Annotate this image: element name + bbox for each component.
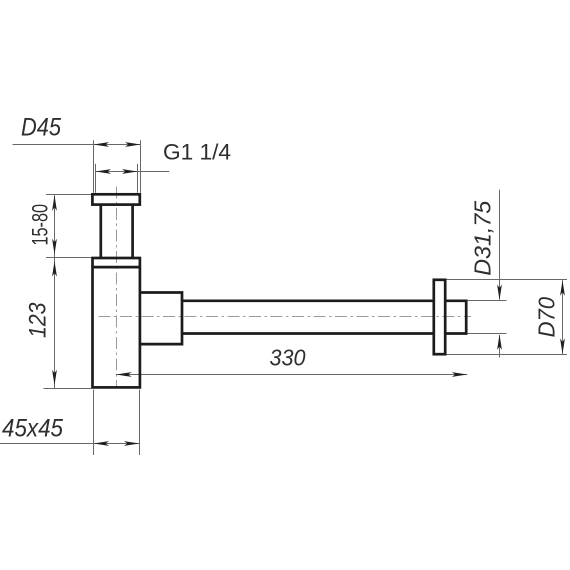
svg-text:123: 123	[25, 302, 52, 338]
svg-text:15-80: 15-80	[28, 204, 53, 246]
svg-text:45x45: 45x45	[2, 415, 63, 443]
svg-text:D31,75: D31,75	[470, 200, 496, 276]
svg-text:D45: D45	[21, 114, 61, 142]
svg-text:330: 330	[270, 345, 306, 371]
svg-text:G1 1/4: G1 1/4	[163, 140, 231, 165]
svg-text:D70: D70	[534, 297, 560, 338]
